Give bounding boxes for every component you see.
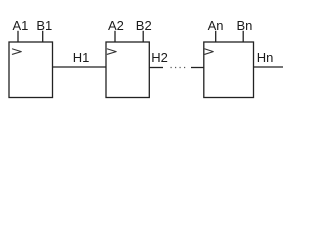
stage 2 block U2 [106,42,149,98]
U2 clock input symbol > [107,49,116,54]
svg-text:H2: H2 [151,50,168,65]
stage n block Un [204,42,254,98]
wire H1 (U1 out to U2 in) [53,66,107,68]
svg-text:H1: H1 [73,50,90,65]
pin B2 wire [142,31,144,42]
wire H2 solid segment from U2 output [149,67,163,69]
pin A2 wire [114,31,116,42]
Un clock input symbol > [205,49,214,54]
wire H2 dotted continuation [171,67,187,69]
stage 1 block U1 [9,42,53,98]
svg-text:B2: B2 [136,18,152,33]
svg-text:An: An [208,18,224,33]
wire segment into Un input [191,67,204,69]
svg-text:B1: B1 [36,18,52,33]
wire Hn (Un output) [254,66,284,68]
svg-text:A2: A2 [108,18,124,33]
pin Bn wire [242,31,244,42]
svg-text:Hn: Hn [257,50,274,65]
pin B1 wire [42,31,44,42]
svg-text:A1: A1 [13,18,29,33]
pin An wire [215,31,217,42]
pin A1 wire [17,31,19,42]
U1 clock input symbol > [12,49,21,54]
svg-text:Bn: Bn [237,18,253,33]
